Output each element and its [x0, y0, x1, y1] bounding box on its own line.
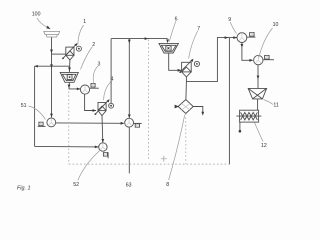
- leader 8: [169, 115, 185, 180]
- leader 100: [37, 18, 48, 28]
- svg-text:100: 100: [32, 12, 41, 18]
- wire pump3 to valve 4: [85, 94, 96, 110]
- leader 4: [104, 81, 112, 100]
- valve V1: [63, 44, 76, 60]
- motor 52: [103, 153, 107, 157]
- leader 6: [169, 21, 176, 41]
- motor 63: [134, 122, 142, 124]
- actuator circle V1: [76, 46, 81, 51]
- leader 9: [230, 22, 236, 34]
- svg-text:63: 63: [126, 182, 132, 188]
- leader 51: [29, 106, 46, 120]
- plus mark: [161, 156, 167, 162]
- mixer 8 outlet down dashed: [185, 114, 187, 164]
- svg-text:8: 8: [166, 182, 169, 188]
- wire fan2 outlet to pump 3: [69, 82, 80, 89]
- control line to valve 4: [110, 39, 112, 104]
- pump 52: [99, 143, 107, 151]
- actuator circle V7: [194, 61, 199, 66]
- motor 51: [39, 122, 43, 125]
- leader 52: [78, 151, 100, 181]
- tank T: [44, 31, 60, 37]
- svg-text:11: 11: [273, 103, 278, 109]
- leader 10: [259, 28, 273, 58]
- wire valve7 outlet tee: [186, 38, 237, 82]
- svg-text:12: 12: [261, 143, 267, 149]
- svg-text:6: 6: [175, 16, 178, 22]
- svg-text:Fig. 1: Fig. 1: [17, 185, 30, 191]
- wire valve1 to fan2: [68, 60, 71, 72]
- pump 63: [125, 118, 134, 127]
- leader 7: [189, 31, 198, 59]
- wire pump51 to pump 63: [56, 122, 124, 124]
- valve V4: [95, 100, 108, 116]
- wire bus bottom to pump 52: [35, 145, 99, 148]
- wire tank down to node 51: [51, 37, 53, 117]
- wire to valve 1: [52, 53, 66, 55]
- wire bus horizontal y66: [35, 65, 70, 67]
- wire fan9 to fan10: [242, 43, 253, 61]
- svg-text:51: 51: [21, 103, 27, 109]
- wire left bus vertical: [34, 66, 36, 146]
- leader 11: [264, 100, 274, 105]
- fan 2: [60, 72, 78, 82]
- heat exchanger 12: [240, 110, 259, 122]
- leader 3: [93, 66, 98, 83]
- node 51 pump: [47, 118, 56, 127]
- mixer 8 outlet right: [193, 107, 203, 114]
- turbine 11: [248, 88, 266, 99]
- svg-text:10: 10: [273, 22, 279, 28]
- motor 10: [263, 59, 274, 61]
- leader 2: [81, 47, 93, 70]
- wire valve4 down to pump 52: [101, 116, 104, 143]
- wire turbine to hx 12: [257, 99, 259, 110]
- mixer 8 diamond: [178, 100, 193, 114]
- fan 10: [254, 55, 263, 64]
- hx drain: [239, 122, 241, 130]
- svg-text:52: 52: [73, 182, 79, 188]
- wire bottom return dashed: [69, 163, 230, 165]
- wire right riser down: [228, 38, 231, 165]
- fan 6: [159, 43, 178, 53]
- valve V7: [180, 60, 192, 77]
- wire pump63 outlet down: [128, 127, 130, 173]
- wire dashed drop x148.5: [148, 40, 150, 161]
- leader 1: [78, 25, 84, 45]
- leader 12: [255, 123, 264, 142]
- pump 3: [80, 85, 89, 94]
- wire fan2 drop dashed: [68, 92, 70, 165]
- actuator circle V4: [109, 103, 114, 108]
- svg-text:2: 2: [92, 42, 95, 48]
- wire fan6 outlet to valve 7: [169, 53, 181, 70]
- svg-text:9: 9: [228, 17, 231, 23]
- wire pump63 top feed: [128, 39, 130, 118]
- fan 9: [237, 33, 247, 43]
- arrow into fan 6: [166, 39, 169, 43]
- motor 9: [247, 36, 255, 38]
- wire valve7 to mixer 8: [185, 82, 188, 100]
- wire fan10 down to turbine 11: [257, 65, 259, 89]
- wire top header y38.6: [111, 38, 168, 40]
- svg-text:1: 1: [83, 19, 86, 25]
- motor 3: [90, 87, 99, 89]
